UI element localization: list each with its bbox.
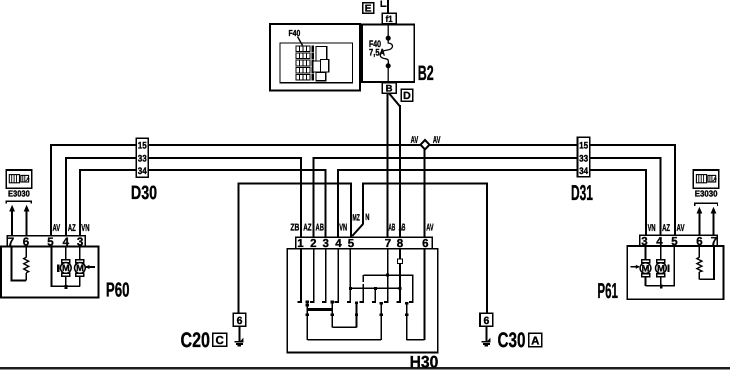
svg-text:N: N bbox=[365, 212, 369, 222]
svg-text:F40: F40 bbox=[289, 28, 301, 38]
svg-text:H30: H30 bbox=[410, 352, 439, 371]
svg-text:A: A bbox=[531, 335, 539, 347]
svg-text:C30: C30 bbox=[498, 329, 526, 352]
svg-text:B: B bbox=[386, 84, 393, 95]
wiper motor assembly P60 outline bbox=[1, 246, 99, 297]
wire P61 pin3 to motor1 bbox=[645, 246, 647, 286]
svg-text:VN: VN bbox=[81, 223, 89, 234]
wire arrow P61 pin7 to E3030 bbox=[711, 207, 717, 236]
wire bus 33/AZ right segment bbox=[314, 158, 661, 237]
connector strip of H30 bbox=[296, 237, 432, 248]
svg-text:7: 7 bbox=[8, 237, 14, 249]
svg-text:M: M bbox=[62, 263, 70, 273]
motor M1 of P61 bbox=[640, 260, 651, 277]
motor M2 of P61 bbox=[656, 260, 667, 277]
wire bus 15/AV right segment bbox=[429, 145, 675, 236]
internal contact H30 pin 7 bbox=[384, 249, 388, 302]
svg-text:5: 5 bbox=[671, 236, 678, 248]
internal contact line pin5-mate bbox=[355, 302, 358, 328]
wire arrow P60 pin6 to E3030 bbox=[24, 205, 30, 237]
svg-text:2: 2 bbox=[310, 238, 316, 250]
park switch bar right of motor2 P61 bbox=[667, 265, 669, 273]
svg-text:VN: VN bbox=[339, 223, 347, 234]
wire L stub at top bbox=[381, 1, 386, 7]
svg-text:6: 6 bbox=[483, 315, 489, 327]
svg-text:D31: D31 bbox=[571, 181, 593, 205]
wire bus 15/AV left segment bbox=[51, 145, 421, 237]
internal contact H30 pin 4 bbox=[335, 249, 339, 302]
svg-text:P61: P61 bbox=[597, 279, 618, 303]
wire battery feed to fuse pin f1 bbox=[387, 0, 389, 13]
internal contact H30 pin 8 with sensor square bbox=[397, 249, 403, 302]
svg-text:3: 3 bbox=[641, 236, 647, 248]
internal contact line x381-mate bbox=[380, 302, 383, 340]
svg-text:33: 33 bbox=[138, 154, 147, 165]
internal contact H30 pin 3 bbox=[322, 249, 326, 302]
wire AB from fuse B to H30 pin 7 bbox=[387, 93, 389, 237]
svg-text:8: 8 bbox=[397, 238, 404, 250]
fuse row 1 in inset bbox=[296, 46, 314, 52]
ground symbol C20 bbox=[235, 326, 244, 345]
wire bus 34/VN right segment bbox=[338, 170, 646, 237]
bracket under E3030 right bbox=[695, 203, 718, 206]
internal contact from y288 at x375 bbox=[372, 288, 376, 302]
svg-text:ZB: ZB bbox=[290, 223, 299, 234]
svg-text:33: 33 bbox=[579, 154, 588, 165]
wire AB from fuse B to H30 pin 8 bbox=[389, 93, 400, 237]
internal wire P61 pin5 common bbox=[646, 246, 675, 286]
park switch bar left of motor1 P60 bbox=[57, 264, 59, 272]
svg-text:D30: D30 bbox=[131, 183, 157, 204]
direction arrow left of motor1 P61 bbox=[631, 265, 640, 269]
wire bus 33/AZ left segment bbox=[66, 158, 301, 237]
svg-text:6: 6 bbox=[696, 236, 702, 248]
fuse row 5 in inset bbox=[296, 74, 314, 80]
svg-text:34: 34 bbox=[579, 166, 589, 177]
svg-text:MZ: MZ bbox=[353, 212, 361, 222]
svg-text:AB: AB bbox=[389, 223, 396, 234]
svg-text:6: 6 bbox=[23, 237, 29, 249]
internal wire H30 pin 6 bbox=[424, 249, 426, 340]
P61 pin numbers bbox=[641, 236, 717, 248]
wire bus 34/VN left segment bbox=[80, 170, 326, 237]
fuse F40 element bbox=[380, 24, 392, 83]
svg-text:M: M bbox=[657, 263, 665, 273]
internal thick link bar bbox=[307, 308, 332, 311]
svg-text:4: 4 bbox=[656, 236, 663, 248]
motor M2 of P60 bbox=[75, 260, 86, 277]
svg-text:AV: AV bbox=[411, 135, 419, 146]
svg-text:AZ: AZ bbox=[662, 223, 670, 234]
connector strip of P61 bbox=[640, 235, 717, 246]
svg-text:D: D bbox=[403, 90, 411, 102]
wire arrow P61 pin6 to E3030 bbox=[697, 207, 703, 236]
leader line from F40 label to fuse row bbox=[298, 37, 303, 46]
earth point symbol E3030 left bbox=[6, 170, 32, 188]
svg-text:7: 7 bbox=[385, 238, 391, 250]
P60 pin numbers bbox=[8, 237, 84, 249]
svg-text:3: 3 bbox=[322, 238, 328, 250]
wire N vertical and horizontal to C30 ground bbox=[363, 184, 487, 314]
wiper motor assembly P61 outline bbox=[627, 246, 723, 299]
internal contact line pin1-mate bbox=[306, 301, 309, 340]
internal contact H30 pin 1 bbox=[298, 249, 302, 302]
svg-text:P60: P60 bbox=[106, 279, 130, 301]
svg-text:6: 6 bbox=[422, 238, 428, 250]
svg-text:AZ: AZ bbox=[303, 223, 311, 234]
fuse box location inset outer frame bbox=[270, 24, 360, 91]
svg-text:AV: AV bbox=[433, 135, 441, 146]
wire N diagonal splice at H30 pin 5 bbox=[352, 224, 363, 236]
wire MZ from H30 pin5 to C20 ground bbox=[239, 184, 351, 314]
resistor in P60 under pin6 bbox=[24, 246, 29, 280]
pin f1 box of fuse box B2 bbox=[382, 13, 396, 24]
svg-text:15: 15 bbox=[138, 141, 148, 152]
pin B box of fuse box B2 bbox=[382, 83, 396, 94]
svg-text:34: 34 bbox=[138, 166, 148, 177]
node AV splice diamond bbox=[421, 140, 430, 149]
junction dot P60 motor1 bottom bbox=[65, 285, 68, 289]
svg-text:AV: AV bbox=[677, 223, 685, 234]
internal contact line pin3-mate bbox=[331, 301, 334, 328]
svg-text:AV: AV bbox=[426, 223, 433, 234]
svg-text:f1: f1 bbox=[386, 14, 393, 24]
svg-text:C20: C20 bbox=[181, 329, 211, 352]
connector strip of P60 bbox=[7, 236, 85, 247]
svg-text:C: C bbox=[215, 335, 223, 347]
internal U link x406 to pin6 bbox=[407, 339, 425, 341]
connector D30 bbox=[136, 138, 148, 177]
connector D31 bbox=[578, 137, 590, 177]
internal contact H30 pin 2 bbox=[310, 249, 314, 302]
internal wire horizontal y288 bbox=[350, 287, 401, 290]
svg-text:AV: AV bbox=[53, 223, 61, 234]
svg-text:15: 15 bbox=[579, 141, 589, 152]
pin 6 box of ground C30 bbox=[480, 313, 493, 326]
wire arrow P60 pin7 to E3030 bbox=[9, 205, 15, 237]
fuse row 2 in inset bbox=[296, 53, 314, 59]
wire P61 pin4 to motor2 bbox=[660, 246, 662, 286]
svg-text:M: M bbox=[642, 263, 650, 273]
svg-text:5: 5 bbox=[348, 238, 355, 250]
wire P60 pin3 to motor2 bbox=[79, 246, 81, 286]
svg-text:M: M bbox=[76, 263, 84, 273]
motor M1 of P60 bbox=[60, 260, 71, 277]
ground symbol C30 bbox=[482, 326, 491, 345]
svg-text:4: 4 bbox=[63, 237, 70, 249]
internal contact H30 pin 5 bbox=[347, 249, 352, 302]
svg-text:6: 6 bbox=[237, 315, 243, 327]
svg-text:3: 3 bbox=[77, 237, 83, 249]
connector label box E bbox=[363, 3, 374, 13]
relay rectangles in inset bbox=[313, 47, 329, 81]
internal wire horizontal y275 bbox=[363, 274, 413, 302]
internal wire P60 pin5 common bbox=[52, 246, 81, 286]
svg-text:E3030: E3030 bbox=[8, 188, 30, 198]
fuse box location inset inner frame bbox=[280, 43, 353, 83]
motor M letters bbox=[62, 263, 665, 273]
bracket under E3030 left bbox=[6, 201, 31, 203]
svg-text:7,5A: 7,5A bbox=[369, 48, 385, 59]
connector label box A bbox=[529, 333, 542, 346]
H30 pin numbers bbox=[297, 238, 428, 250]
wire P60 pin4 to motor1 bbox=[65, 246, 67, 286]
svg-text:7: 7 bbox=[711, 236, 717, 248]
resistor in P61 under pin6 bbox=[697, 246, 702, 279]
connector label box C bbox=[213, 333, 227, 346]
svg-text:1: 1 bbox=[297, 238, 304, 250]
earth point symbol E3030 right bbox=[693, 170, 718, 188]
svg-text:AZ: AZ bbox=[68, 223, 76, 234]
svg-text:VN: VN bbox=[648, 223, 656, 234]
junction dot P61 motor2 bottom bbox=[660, 285, 663, 289]
svg-text:E3030: E3030 bbox=[695, 188, 718, 198]
internal U link pin1mate to x381 bbox=[307, 339, 381, 341]
page bottom border line bbox=[0, 367, 730, 369]
internal wire P60 pin7 bbox=[12, 246, 27, 280]
svg-text:E: E bbox=[365, 4, 372, 15]
fuse row 4 in inset bbox=[296, 67, 314, 73]
intermittence device H30 outline bbox=[287, 249, 438, 353]
internal switch line at x363 bbox=[360, 275, 364, 302]
internal contact line x406-mate bbox=[405, 302, 408, 340]
wire AV diamond to H30 pin 6 bbox=[424, 149, 426, 238]
pin 6 box of ground C20 bbox=[233, 313, 246, 326]
internal U link pin3mate to pin5mate bbox=[332, 326, 356, 328]
svg-text:AB: AB bbox=[316, 223, 324, 234]
svg-text:5: 5 bbox=[47, 237, 54, 249]
direction arrow right of motor2 P60 bbox=[85, 265, 94, 269]
fuse row 3 in inset bbox=[296, 60, 314, 66]
connector label box D bbox=[401, 89, 412, 101]
svg-text:AB: AB bbox=[399, 223, 406, 234]
svg-text:B2: B2 bbox=[418, 62, 434, 85]
fuse box B2 outline bbox=[362, 24, 414, 82]
svg-text:4: 4 bbox=[335, 238, 342, 250]
internal wire P61 pin7 bbox=[699, 246, 714, 279]
